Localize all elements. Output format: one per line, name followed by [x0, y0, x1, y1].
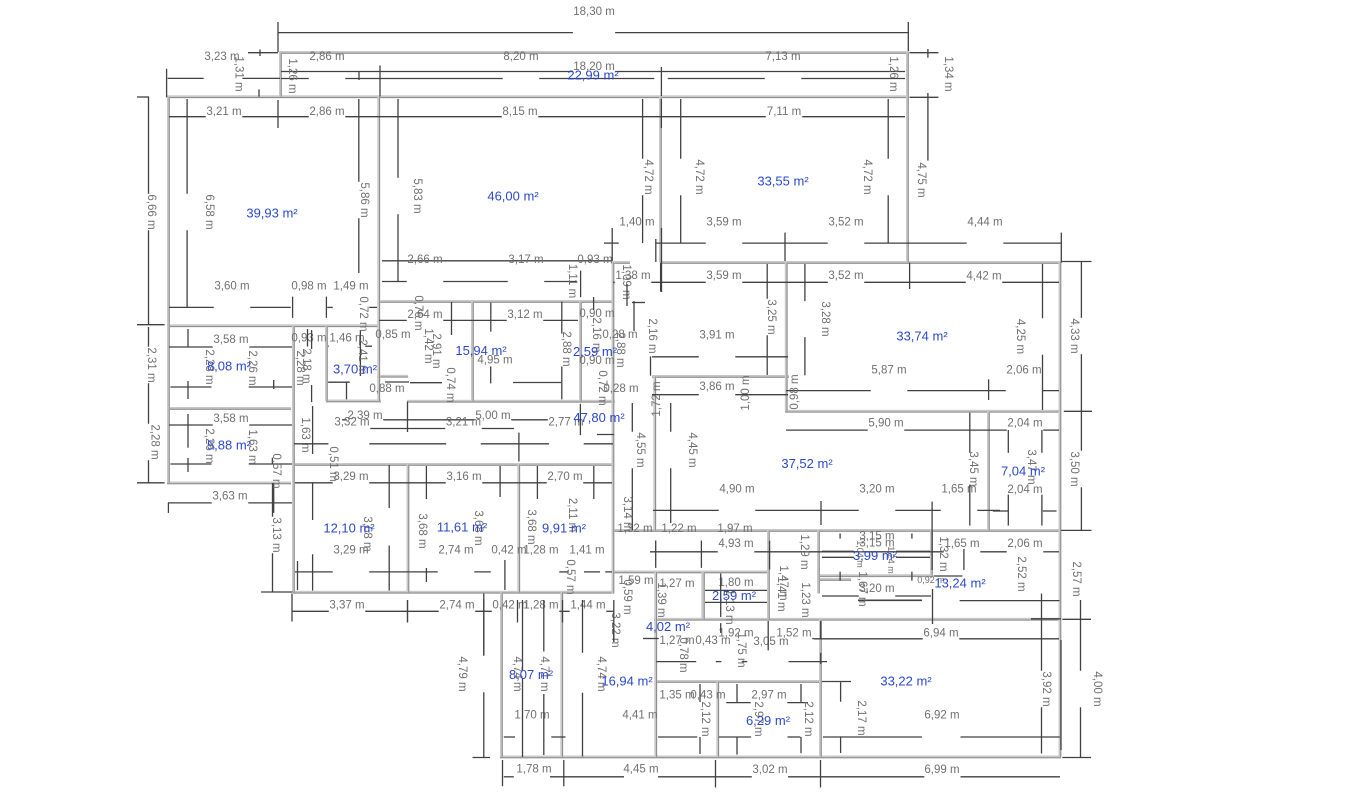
svg-text:4,44 m: 4,44 m: [967, 217, 1002, 229]
svg-text:8,08 m²: 8,08 m²: [207, 359, 252, 374]
svg-text:3,12 m: 3,12 m: [507, 309, 542, 321]
svg-text:5,83 m: 5,83 m: [411, 178, 423, 213]
svg-text:3,20 m: 3,20 m: [859, 484, 894, 496]
svg-text:46,00 m²: 46,00 m²: [487, 189, 539, 204]
svg-text:2,17 m: 2,17 m: [855, 700, 867, 735]
svg-text:4,72 m: 4,72 m: [693, 159, 705, 194]
svg-text:1,26 m: 1,26 m: [887, 56, 899, 91]
svg-text:5,88 m²: 5,88 m²: [207, 438, 252, 453]
svg-text:3,45 m: 3,45 m: [967, 451, 979, 486]
svg-text:4,75 m: 4,75 m: [915, 162, 927, 197]
svg-text:0,74 m: 0,74 m: [444, 367, 456, 402]
svg-text:5,86 m: 5,86 m: [358, 182, 370, 217]
svg-text:3,16 m: 3,16 m: [446, 471, 481, 483]
svg-text:2,52 m: 2,52 m: [1015, 556, 1027, 591]
svg-text:37,52 m²: 37,52 m²: [781, 456, 833, 471]
svg-text:3,22 m: 3,22 m: [609, 612, 621, 647]
svg-text:1,31 m: 1,31 m: [233, 56, 245, 91]
svg-text:3,70 m²: 3,70 m²: [333, 362, 378, 377]
svg-text:1,09 m: 1,09 m: [620, 264, 632, 299]
svg-text:3,50 m: 3,50 m: [1068, 451, 1080, 486]
svg-text:3,37 m: 3,37 m: [329, 600, 364, 612]
svg-text:0,43 m: 0,43 m: [695, 635, 730, 647]
svg-text:4,02 m²: 4,02 m²: [646, 619, 691, 634]
svg-text:4,90 m: 4,90 m: [719, 484, 754, 496]
svg-text:4,33 m: 4,33 m: [1068, 318, 1080, 353]
svg-text:0,59 m: 0,59 m: [621, 579, 633, 614]
svg-text:1,29 m: 1,29 m: [798, 534, 810, 569]
svg-text:2,86 m: 2,86 m: [309, 106, 344, 118]
svg-text:3,02 m: 3,02 m: [752, 764, 787, 776]
svg-text:3,99 m²: 3,99 m²: [853, 548, 898, 563]
svg-text:11,61 m²: 11,61 m²: [437, 520, 488, 535]
svg-text:33,55 m²: 33,55 m²: [757, 174, 809, 189]
svg-text:3,58 m: 3,58 m: [213, 413, 248, 425]
svg-text:0,43 m: 0,43 m: [690, 690, 725, 702]
svg-text:2,74 m: 2,74 m: [438, 545, 473, 557]
svg-text:2,04 m: 2,04 m: [1007, 418, 1042, 430]
svg-text:3,60 m: 3,60 m: [214, 281, 249, 293]
svg-text:0,93 m: 0,93 m: [577, 254, 612, 266]
svg-text:4,93 m: 4,93 m: [718, 538, 753, 550]
svg-text:4,45 m: 4,45 m: [623, 764, 658, 776]
svg-text:1,11 m: 1,11 m: [566, 264, 578, 298]
svg-text:2,06 m: 2,06 m: [1007, 538, 1042, 550]
svg-text:6,66 m: 6,66 m: [145, 194, 157, 229]
svg-text:0,93 m: 0,93 m: [291, 333, 326, 345]
svg-text:1,63 m: 1,63 m: [299, 417, 311, 452]
svg-text:2,97 m: 2,97 m: [751, 690, 786, 702]
svg-text:0,72 m: 0,72 m: [357, 296, 369, 331]
svg-text:1,40 m: 1,40 m: [619, 217, 654, 229]
svg-text:2,57 m: 2,57 m: [1070, 561, 1082, 596]
svg-text:2,74 m: 2,74 m: [439, 600, 474, 612]
svg-text:33,74 m²: 33,74 m²: [896, 329, 948, 344]
svg-text:39,93 m²: 39,93 m²: [246, 206, 298, 221]
svg-text:13,24 m²: 13,24 m²: [934, 576, 986, 591]
svg-text:1,28 m: 1,28 m: [523, 600, 558, 612]
svg-text:3,17 m: 3,17 m: [508, 254, 543, 266]
svg-text:0,57 m: 0,57 m: [564, 559, 576, 594]
svg-text:2,86 m: 2,86 m: [309, 51, 344, 63]
svg-text:0,42 m: 0,42 m: [491, 545, 526, 557]
svg-text:0,88 m: 0,88 m: [369, 383, 404, 395]
svg-text:2,31 m: 2,31 m: [145, 347, 157, 382]
svg-text:8,15 m: 8,15 m: [502, 106, 537, 118]
svg-text:3,52 m: 3,52 m: [828, 217, 863, 229]
svg-text:16,94 m²: 16,94 m²: [601, 674, 653, 689]
svg-text:4,72 m: 4,72 m: [642, 159, 654, 194]
svg-text:1,26 m: 1,26 m: [286, 58, 298, 93]
svg-text:3,25 m: 3,25 m: [765, 299, 777, 334]
svg-text:1,75 m: 1,75 m: [735, 632, 747, 667]
svg-text:1,67 m: 1,67 m: [856, 571, 868, 606]
svg-text:3,21 m: 3,21 m: [206, 106, 241, 118]
svg-text:3,68 m: 3,68 m: [525, 509, 537, 544]
svg-text:9,91 m²: 9,91 m²: [542, 521, 587, 536]
svg-text:3,21 m: 3,21 m: [446, 416, 481, 428]
svg-text:1,22 m: 1,22 m: [661, 523, 696, 535]
svg-text:5,87 m: 5,87 m: [871, 365, 906, 377]
svg-text:4,72 m: 4,72 m: [861, 159, 873, 194]
svg-text:1,72 m: 1,72 m: [651, 381, 663, 416]
svg-text:12,10 m²: 12,10 m²: [323, 521, 375, 536]
svg-text:4,41 m: 4,41 m: [622, 709, 657, 721]
svg-text:1,34 m: 1,34 m: [942, 56, 954, 91]
svg-text:2,12 m: 2,12 m: [802, 701, 814, 736]
svg-text:4,00 m: 4,00 m: [1091, 671, 1103, 706]
svg-text:1,78 m: 1,78 m: [516, 764, 551, 776]
svg-text:0,98 m: 0,98 m: [789, 374, 801, 409]
svg-text:7,11 m: 7,11 m: [767, 106, 801, 118]
svg-text:3,58 m: 3,58 m: [213, 334, 248, 346]
svg-text:1,00 m: 1,00 m: [740, 375, 752, 410]
svg-text:2,91 m: 2,91 m: [430, 333, 442, 368]
svg-text:0,72 m: 0,72 m: [596, 370, 608, 405]
svg-text:1,49 m: 1,49 m: [333, 281, 368, 293]
svg-text:3,52 m: 3,52 m: [828, 270, 863, 282]
svg-text:2,59 m²: 2,59 m²: [573, 344, 618, 359]
svg-text:8,20 m: 8,20 m: [503, 51, 538, 63]
svg-text:1,41 m: 1,41 m: [775, 576, 787, 611]
svg-text:0,85 m: 0,85 m: [375, 329, 410, 341]
svg-text:2,16 m: 2,16 m: [646, 318, 658, 353]
svg-text:3,63 m: 3,63 m: [212, 491, 247, 503]
svg-text:3,68 m: 3,68 m: [416, 513, 428, 548]
svg-text:1,23 m: 1,23 m: [799, 582, 811, 617]
svg-text:1,35 m: 1,35 m: [659, 690, 694, 702]
svg-text:3,32 m: 3,32 m: [334, 416, 369, 428]
svg-text:4,79 m: 4,79 m: [456, 656, 468, 691]
svg-text:3,86 m: 3,86 m: [699, 381, 734, 393]
svg-text:6,94 m: 6,94 m: [923, 628, 958, 640]
svg-text:6,92 m: 6,92 m: [924, 710, 959, 722]
svg-text:3,28 m: 3,28 m: [819, 301, 831, 336]
svg-text:4,25 m: 4,25 m: [1014, 319, 1026, 354]
svg-text:33,22 m²: 33,22 m²: [880, 674, 932, 689]
svg-text:2,04 m: 2,04 m: [1007, 484, 1042, 496]
svg-text:0,57 m: 0,57 m: [270, 453, 282, 488]
svg-text:2,28 m: 2,28 m: [149, 424, 161, 459]
svg-text:3,59 m: 3,59 m: [706, 270, 741, 282]
svg-text:0,98 m: 0,98 m: [291, 281, 326, 293]
svg-text:1,41 m: 1,41 m: [569, 545, 604, 557]
svg-text:2,59 m²: 2,59 m²: [712, 588, 757, 603]
svg-text:3,91 m: 3,91 m: [699, 330, 734, 342]
svg-text:0,76 m: 0,76 m: [412, 295, 424, 330]
svg-text:47,80 m²: 47,80 m²: [573, 410, 625, 425]
svg-text:3,13 m: 3,13 m: [270, 517, 282, 552]
svg-text:1,39 m: 1,39 m: [655, 582, 667, 617]
svg-text:2,06 m: 2,06 m: [1006, 365, 1041, 377]
svg-text:6,99 m: 6,99 m: [924, 764, 959, 776]
svg-text:4,55 m: 4,55 m: [634, 432, 646, 467]
svg-text:2,18 m: 2,18 m: [300, 348, 312, 383]
svg-text:15,94 m²: 15,94 m²: [455, 343, 507, 358]
svg-text:4,45 m: 4,45 m: [686, 432, 698, 467]
svg-text:7,04 m²: 7,04 m²: [1001, 464, 1046, 479]
svg-text:1,28 m: 1,28 m: [523, 545, 558, 557]
svg-text:3,92 m: 3,92 m: [1040, 671, 1052, 706]
svg-text:22,99 m²: 22,99 m²: [567, 68, 619, 83]
svg-text:5,90 m: 5,90 m: [868, 418, 903, 430]
svg-text:7,13 m: 7,13 m: [765, 51, 800, 63]
svg-text:1,44 m: 1,44 m: [570, 600, 605, 612]
svg-text:18,30 m: 18,30 m: [573, 6, 615, 18]
svg-text:3,59 m: 3,59 m: [706, 217, 741, 229]
svg-text:4,42 m: 4,42 m: [966, 271, 1001, 283]
svg-text:2,66 m: 2,66 m: [407, 254, 442, 266]
svg-text:2,70 m: 2,70 m: [547, 471, 582, 483]
svg-text:8,07 m²: 8,07 m²: [509, 667, 554, 682]
svg-text:6,58 m: 6,58 m: [203, 194, 215, 229]
svg-text:1,32 m: 1,32 m: [937, 536, 949, 571]
svg-text:0,51 m: 0,51 m: [327, 446, 339, 481]
svg-text:2,12 m: 2,12 m: [699, 701, 711, 736]
svg-text:0,78 m: 0,78 m: [677, 637, 689, 672]
svg-text:2,88 m: 2,88 m: [560, 331, 572, 366]
svg-text:3,14 m: 3,14 m: [621, 496, 633, 531]
svg-text:6,29 m²: 6,29 m²: [746, 713, 791, 728]
svg-text:1,97 m: 1,97 m: [717, 523, 752, 535]
svg-text:3,05 m: 3,05 m: [753, 636, 788, 648]
